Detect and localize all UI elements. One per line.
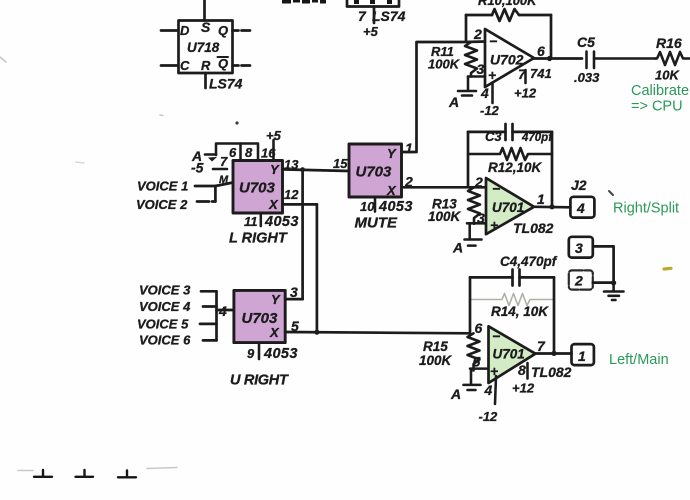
svg-text:U703: U703 xyxy=(239,180,276,197)
svg-text:U701: U701 xyxy=(492,200,524,215)
svg-text:7: 7 xyxy=(358,8,367,24)
svg-text:1: 1 xyxy=(537,191,545,207)
op-amp U702 xyxy=(485,29,534,87)
svg-text:+12: +12 xyxy=(512,381,535,396)
pin 8 +12 (U701b) xyxy=(526,363,529,379)
svg-text:100K: 100K xyxy=(419,353,453,368)
wire pin3 U702 xyxy=(468,75,485,78)
svg-text:Calibrate: Calibrate xyxy=(631,83,689,99)
wire pin2 to ground xyxy=(593,281,614,284)
wire X bus down xyxy=(316,204,319,332)
svg-text:−: − xyxy=(489,33,497,49)
analog switch U703 (MUTE) xyxy=(349,144,402,197)
svg-text:R15: R15 xyxy=(423,339,448,354)
svg-text:6: 6 xyxy=(475,320,483,336)
partial ground stub 3 xyxy=(118,471,136,478)
resistor R14 10K (faint) xyxy=(470,294,554,306)
flip-flop fragment (second LS74, cut at top) xyxy=(347,0,399,23)
connector pin 3 xyxy=(569,237,593,258)
svg-text:TL082: TL082 xyxy=(531,364,572,380)
svg-text:S: S xyxy=(201,19,211,35)
analog switch U703 (U RIGHT) xyxy=(234,290,285,342)
svg-text:7: 7 xyxy=(518,66,527,82)
resistor R10 100K feedback xyxy=(466,9,551,21)
scan speck xyxy=(235,121,238,124)
svg-text:6: 6 xyxy=(537,43,545,59)
resistor R12 10K xyxy=(468,148,552,160)
svg-text:15: 15 xyxy=(333,156,348,171)
svg-text:-12: -12 xyxy=(479,409,499,424)
partial ground stub 1 xyxy=(34,470,52,477)
svg-text:6: 6 xyxy=(229,145,237,160)
svg-text:R16: R16 xyxy=(656,35,682,51)
svg-text:−: − xyxy=(492,181,500,197)
svg-text:X: X xyxy=(269,325,280,340)
svg-text:4: 4 xyxy=(576,200,585,216)
svg-text:C4,470pf: C4,470pf xyxy=(500,254,558,269)
wire Y bus down to U RIGHT pin3 xyxy=(301,169,304,299)
svg-text:+5: +5 xyxy=(266,128,282,143)
svg-text:.033: .033 xyxy=(574,70,600,85)
pin 7 +12 (U702) xyxy=(524,70,527,83)
svg-text:3: 3 xyxy=(575,240,583,256)
svg-text:12: 12 xyxy=(284,187,299,202)
svg-text:+: + xyxy=(488,67,496,83)
svg-text:C3: C3 xyxy=(485,129,502,144)
ground A (U702) xyxy=(458,77,476,96)
svg-text:Right/Split: Right/Split xyxy=(613,201,679,217)
capacitor C4 470pf xyxy=(470,270,554,286)
svg-text:U RIGHT: U RIGHT xyxy=(230,373,289,389)
svg-text:+: + xyxy=(490,217,498,233)
connector pin 2 xyxy=(569,270,593,289)
resistor R13 100K xyxy=(468,187,480,223)
op-amp U701 (Right/Split) xyxy=(486,178,534,234)
pin 4 -12 (U701b) xyxy=(495,376,496,404)
svg-text:VOICE 4: VOICE 4 xyxy=(139,299,191,314)
ground (J2 bus) xyxy=(604,283,624,300)
svg-text:U703: U703 xyxy=(356,164,393,181)
wire feedback verticals U702 xyxy=(466,15,551,59)
faint scan marks xyxy=(0,57,177,471)
svg-text:U701: U701 xyxy=(493,347,525,362)
svg-text:4: 4 xyxy=(218,303,227,319)
svg-text:2: 2 xyxy=(474,174,483,190)
svg-text:5: 5 xyxy=(473,354,481,370)
svg-text:4053: 4053 xyxy=(378,199,413,215)
svg-text:C5: C5 xyxy=(577,34,595,50)
svg-text:R: R xyxy=(201,58,211,73)
ground A (U701a) xyxy=(465,223,482,245)
wire voice1/2 join xyxy=(195,183,233,202)
resistor R16 10K xyxy=(655,52,690,65)
svg-text:J2: J2 xyxy=(571,177,587,193)
pin cells 6 8 16 on top xyxy=(216,140,274,161)
analog switch U703 (L RIGHT) xyxy=(233,161,283,214)
wire pin3 to ground bus xyxy=(593,246,614,283)
svg-text:Y: Y xyxy=(270,162,280,177)
connector pin 1 xyxy=(572,344,594,365)
svg-text:4: 4 xyxy=(484,382,493,398)
svg-text:R14, 10K: R14, 10K xyxy=(491,304,549,319)
pin 4 -12 (U702) xyxy=(491,83,494,104)
svg-text:LS74: LS74 xyxy=(372,8,406,24)
resistor R11 100K xyxy=(465,42,477,77)
svg-text:+5: +5 xyxy=(363,24,379,39)
wire MUTE pin1 up to U702 input xyxy=(402,42,486,153)
svg-text:7: 7 xyxy=(220,154,228,169)
svg-text:X: X xyxy=(268,197,279,212)
svg-text:741: 741 xyxy=(530,66,552,81)
wire pin3 U701a xyxy=(467,222,486,225)
svg-text:=> CPU: => CPU xyxy=(631,99,683,115)
svg-text:R12,10K: R12,10K xyxy=(488,160,543,175)
svg-text:VOICE 6: VOICE 6 xyxy=(139,333,191,348)
svg-text:2: 2 xyxy=(473,26,482,42)
svg-text:VOICE 3: VOICE 3 xyxy=(139,283,191,298)
svg-text:Y: Y xyxy=(271,292,281,307)
svg-text:Q: Q xyxy=(218,56,228,71)
svg-text:X: X xyxy=(386,183,397,198)
svg-text:R10,100K: R10,100K xyxy=(478,0,538,8)
resistor R15 100K xyxy=(468,333,480,370)
connector pin 4 xyxy=(570,197,594,218)
svg-text:-12: -12 xyxy=(480,103,500,118)
speck xyxy=(609,191,613,195)
wire voice3-6 join xyxy=(200,291,234,340)
svg-text:-5: -5 xyxy=(191,160,204,176)
capacitor C3 470pf xyxy=(468,124,552,140)
op-amp U701 (Left/Main) xyxy=(489,326,536,383)
svg-text:4053: 4053 xyxy=(264,214,299,230)
cut-off text top left xyxy=(282,0,326,4)
wire pin5 U701b xyxy=(470,367,489,370)
svg-text:VOICE 2: VOICE 2 xyxy=(136,197,188,212)
svg-text:VOICE 1: VOICE 1 xyxy=(137,179,188,194)
svg-text:7: 7 xyxy=(537,338,546,354)
svg-text:VOICE 5: VOICE 5 xyxy=(137,317,189,332)
svg-text:+12: +12 xyxy=(514,86,537,101)
wire feedback verticals U701a xyxy=(468,132,552,207)
svg-text:10K: 10K xyxy=(655,68,680,83)
svg-text:Y: Y xyxy=(387,146,397,161)
svg-text:Q: Q xyxy=(218,23,228,38)
wire MUTE X to U701 pin2 xyxy=(402,186,486,189)
svg-text:16: 16 xyxy=(261,146,276,161)
svg-text:8: 8 xyxy=(245,145,253,160)
svg-text:Left/Main: Left/Main xyxy=(609,352,669,368)
svg-text:L RIGHT: L RIGHT xyxy=(229,231,288,247)
svg-text:11: 11 xyxy=(244,214,258,229)
svg-text:TL082: TL082 xyxy=(513,220,554,236)
svg-text:1: 1 xyxy=(405,140,413,156)
svg-text:3: 3 xyxy=(290,284,298,300)
svg-text:8: 8 xyxy=(518,362,526,378)
svg-text:1: 1 xyxy=(578,348,586,364)
svg-text:470pf: 470pf xyxy=(521,132,553,144)
svg-text:9: 9 xyxy=(247,346,255,361)
svg-text:4: 4 xyxy=(480,85,489,101)
svg-text:100K: 100K xyxy=(428,57,461,72)
svg-text:LS74: LS74 xyxy=(209,76,243,92)
svg-text:4053: 4053 xyxy=(263,346,298,362)
svg-text:MUTE: MUTE xyxy=(355,215,398,232)
capacitor C5 .033 xyxy=(587,52,656,69)
svg-text:A: A xyxy=(452,240,463,256)
svg-text:2: 2 xyxy=(574,273,583,289)
svg-text:U718: U718 xyxy=(187,40,220,55)
ground A (U701b) xyxy=(464,369,481,390)
yellow mark xyxy=(664,267,671,271)
svg-text:−: − xyxy=(492,328,500,344)
svg-text:100K: 100K xyxy=(428,209,462,224)
svg-text:10: 10 xyxy=(360,199,375,214)
wire feedback verticals U701b xyxy=(470,277,554,353)
svg-text:A: A xyxy=(448,94,459,110)
svg-text:C: C xyxy=(180,58,190,73)
svg-text:3: 3 xyxy=(477,61,485,77)
svg-text:D: D xyxy=(180,23,190,38)
flip-flop U718 xyxy=(161,0,250,88)
partial ground stub 2 xyxy=(76,470,94,477)
wire U702 output xyxy=(534,57,582,60)
svg-text:A: A xyxy=(450,386,461,402)
